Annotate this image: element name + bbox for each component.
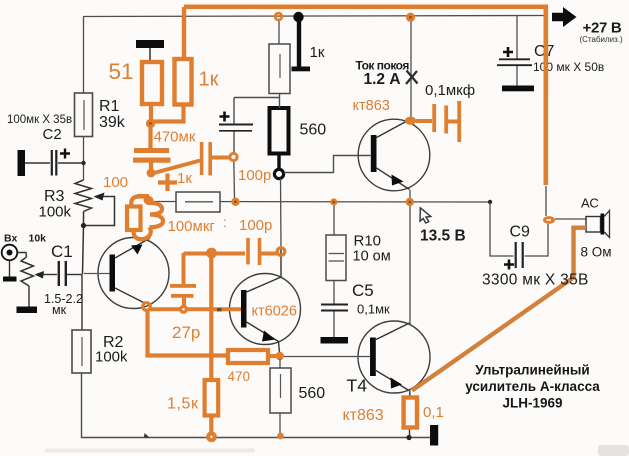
capacitor C1: [59, 261, 66, 286]
node rail black dot: [293, 12, 303, 22]
wire Q4 emitter to R01: [409, 391, 411, 398]
value 13.5 V: [420, 228, 466, 245]
svg-text:100: 100: [103, 174, 128, 191]
wire 1k5 branch vertical: [209, 253, 213, 380]
node speaker ellipse: [543, 216, 555, 224]
resistor 0.1 orange: [404, 398, 417, 428]
value 8 Om: [581, 245, 612, 260]
wire thick black to ground: [297, 20, 301, 67]
capacitor 27p: [170, 253, 196, 307]
capacitor 100p first: [200, 142, 230, 176]
svg-text:кт6026: кт6026: [252, 304, 297, 320]
wire top rail black: [83, 16, 544, 17]
wire Q3 emitter down: [409, 190, 411, 199]
label +27 V: [583, 20, 622, 37]
speaker AC: [586, 211, 610, 238]
svg-text:1к: 1к: [177, 170, 192, 187]
label 10k: [29, 233, 47, 245]
svg-text:0,1мк: 0,1мк: [357, 302, 390, 317]
title line 3: [502, 396, 562, 411]
label R2: [103, 334, 124, 351]
cursor arrow 13.5V: [420, 208, 431, 223]
svg-text:C1: C1: [51, 242, 73, 261]
svg-text:JLH-1969: JLH-1969: [502, 396, 562, 411]
value 470 orange: [228, 369, 251, 384]
resistor 560 lower gray: [270, 359, 291, 433]
value 100k R3: [39, 204, 72, 221]
value 100p orange lower: [239, 217, 272, 234]
resistor R2: [72, 330, 91, 373]
svg-text:39k: 39k: [99, 114, 126, 131]
arrow +27V: [552, 7, 577, 27]
wire connector ground: [9, 261, 11, 278]
transistor Q3 circle: [358, 119, 430, 191]
wire 560 node to Q3 base: [284, 156, 371, 173]
orange top rail wire: [184, 7, 546, 185]
svg-text:1к: 1к: [199, 69, 219, 91]
svg-text:8 Ом: 8 Ом: [581, 245, 612, 260]
svg-text:мк: мк: [52, 303, 67, 317]
svg-text:1к: 1к: [310, 44, 325, 61]
svg-text:51: 51: [109, 59, 134, 84]
node 560 bottom ring: [274, 169, 283, 178]
wire pot ground: [28, 286, 30, 307]
ground bar 1k: [292, 67, 311, 72]
wire wiper to C1: [42, 274, 57, 276]
wire output diagonal orange: [412, 228, 586, 391]
terminal bar C2 left: [18, 150, 26, 176]
node 470 right dot: [276, 352, 284, 360]
wire 1k gray top lead: [278, 21, 280, 44]
wire 560 top lead: [234, 94, 280, 125]
wire 470uF top lead: [148, 126, 152, 148]
value 51 orange: [109, 59, 134, 84]
svg-text:(Стабилиз.): (Стабилиз.): [580, 35, 624, 44]
value 0.1mkf black: [425, 82, 475, 99]
wiper arrow R3: [86, 193, 115, 226]
svg-text:470: 470: [228, 369, 251, 384]
svg-text:10 ом: 10 ом: [353, 249, 391, 265]
plus mark orange: [158, 174, 177, 192]
node R3 bottom: [81, 223, 86, 228]
svg-text:C5: C5: [352, 281, 374, 300]
wire R01 bottom lead: [409, 428, 411, 438]
junction tick bottom rail: [144, 433, 150, 438]
svg-text:100р: 100р: [239, 217, 272, 234]
node Q3 collector ellipse: [405, 117, 416, 125]
svg-text:C9: C9: [510, 224, 531, 241]
transistor Q2 collector: [247, 247, 282, 293]
wire 560 node down to Q2 collector ring: [280, 179, 283, 248]
wire connector to pot: [18, 253, 27, 258]
resistor 470 orange: [228, 350, 276, 363]
capacitor C5: [321, 305, 348, 311]
value 10 om: [353, 249, 391, 265]
label kt863 lower orange: [343, 407, 384, 424]
wire 1k top lead orange: [182, 7, 186, 59]
wire C2 right lead: [58, 162, 84, 164]
wire R10 to C5: [333, 281, 335, 304]
transistor Q1 collector: [115, 288, 146, 304]
wire 560 bottom lead thick: [277, 154, 280, 170]
colon separator: [223, 214, 227, 230]
value 1k orange top: [199, 69, 219, 91]
svg-text:0,1мкф: 0,1мкф: [425, 82, 475, 99]
capacitor 100p second: [246, 238, 277, 265]
value 27p orange: [172, 323, 200, 342]
wire Q4 collector up: [409, 202, 411, 324]
node rail ring 1k: [275, 13, 282, 20]
value 560 lower: [299, 385, 326, 402]
node ring cap junction: [230, 153, 237, 160]
transistor Q1 emitter: [115, 238, 150, 258]
label kt863 upper orange: [353, 98, 390, 114]
svg-text:R1: R1: [99, 98, 120, 115]
node output dot left: [330, 198, 337, 205]
X mark bias: [406, 71, 418, 85]
node 560 lower bottom dot: [277, 433, 284, 440]
wire R1 to R3: [83, 137, 85, 181]
label C5: [352, 281, 374, 300]
wire Q3 collector up: [410, 21, 412, 118]
svg-text:10k: 10k: [29, 233, 47, 245]
node inductor blob: [144, 196, 154, 205]
node C2-R1 junction: [81, 161, 85, 165]
transistor Q4 emitter: [376, 371, 409, 391]
ground bar top left: [136, 40, 164, 48]
capacitor C7: [497, 16, 534, 92]
svg-text:кт863: кт863: [353, 98, 390, 114]
wire feedback horizontal: [150, 307, 241, 311]
potentiometer 10k: [21, 257, 34, 286]
svg-text:R3: R3: [44, 188, 65, 205]
wire C9 branch: [490, 202, 514, 256]
node Q2 collector ring: [277, 248, 285, 256]
resistor 1k orange: [175, 59, 192, 105]
capacitor black mid (plus): [219, 112, 253, 154]
ground bar C5: [321, 337, 349, 344]
wire right rail lower: [545, 186, 547, 216]
label stabiliz: [580, 35, 624, 44]
node output C9 dot: [488, 200, 492, 204]
value 3300mk X 35V: [482, 272, 589, 289]
ground bar pot: [17, 307, 38, 314]
svg-text:кт863: кт863: [343, 407, 384, 424]
value 0.1mk: [357, 302, 390, 317]
smudge bottom streak: [45, 449, 255, 453]
capacitor C2: [52, 149, 70, 176]
node rail dot Q3: [406, 13, 415, 22]
label R10: [354, 233, 382, 250]
svg-text:470мк: 470мк: [154, 129, 196, 146]
svg-text:100k: 100k: [95, 349, 128, 366]
resistor 560 upper black: [270, 108, 289, 154]
tick dark on feedback wire: [217, 308, 222, 311]
resistor R10: [326, 235, 346, 281]
svg-text:27р: 27р: [172, 323, 200, 342]
node 470uF bottom dot: [147, 169, 156, 178]
svg-text:+27 В: +27 В: [583, 20, 622, 37]
value 100k R2: [95, 349, 128, 366]
svg-text:1,5к: 1,5к: [167, 396, 199, 413]
svg-text:100мк X 35в: 100мк X 35в: [7, 114, 72, 126]
node 470uF top dot: [146, 119, 155, 128]
value 100 orange: [103, 174, 128, 191]
label R1: [99, 98, 120, 115]
svg-text:АС: АС: [581, 196, 599, 211]
svg-text:1.2 А: 1.2 А: [364, 71, 401, 88]
svg-text:100р: 100р: [238, 167, 271, 184]
svg-text:0,1: 0,1: [423, 404, 444, 421]
capacitor C9: [504, 242, 523, 270]
wire ground to 51 resistor: [149, 48, 151, 62]
value 470mk orange: [154, 129, 196, 146]
svg-text:13.5 В: 13.5 В: [420, 228, 466, 245]
value 100mkg orange: [168, 218, 216, 235]
node 27p junction dot: [206, 248, 217, 259]
transistor Q2 emitter: [247, 322, 280, 353]
svg-text:560: 560: [299, 385, 326, 402]
resistor 1k gray top: [269, 44, 290, 94]
wire 1k bottom bend: [153, 105, 184, 122]
wire C1 to base node: [67, 274, 83, 276]
node output dot right: [406, 198, 414, 206]
label R3: [44, 188, 65, 205]
label Tok pokoya: [356, 59, 410, 73]
svg-text:Вх: Вх: [4, 233, 17, 245]
node R01 bottom: [406, 435, 411, 440]
resistor R1: [75, 93, 93, 137]
value 100mk X 50v: [533, 60, 604, 74]
svg-text:100k: 100k: [39, 204, 72, 221]
transistor Q1 circle: [98, 238, 169, 309]
value 100p orange upper: [238, 167, 271, 184]
smudge bottom right: [598, 445, 629, 456]
ground bar connector: [3, 277, 17, 282]
value 1.5-2.2 mk: [44, 292, 83, 317]
value 560 upper: [300, 122, 327, 139]
wire C2 left lead: [25, 162, 50, 164]
wire diagonal to 100p cap: [152, 161, 200, 174]
wire R10 top lead: [333, 202, 335, 235]
title line 1: [475, 363, 589, 378]
value 39k: [99, 114, 126, 131]
label C7: [534, 43, 555, 60]
terminal bar bottom right: [430, 425, 438, 446]
label 1k black: [310, 44, 325, 61]
transistor Q4 base bar: [370, 338, 376, 377]
label T4: [347, 376, 368, 396]
label kt6026 orange: [252, 304, 297, 320]
capacitor 0.1uF orange: [416, 101, 461, 142]
label C1: [51, 242, 73, 261]
wire R3 bottom: [83, 212, 84, 275]
wire C5 to ground: [333, 312, 335, 338]
potentiometer R3: [75, 180, 92, 212]
label C2: [43, 126, 62, 143]
label C9: [510, 224, 531, 241]
label AC: [581, 196, 599, 211]
label 100mk X 35v: [7, 114, 72, 126]
wire 51 bottom lead: [149, 104, 153, 121]
svg-text:3300 мк X 35В: 3300 мк X 35В: [482, 272, 589, 289]
value 1.5k orange: [167, 396, 199, 413]
wire Q1 collector branch down: [148, 311, 229, 356]
wire Q4 base lead: [284, 356, 370, 358]
wire rail overlay segment: [543, 40, 548, 95]
svg-text:Т4: Т4: [347, 376, 368, 396]
wire left rail upper: [83, 17, 85, 94]
wire R2 to bottom rail: [82, 373, 431, 438]
wire speaker lead: [555, 218, 586, 220]
svg-text:C2: C2: [43, 126, 62, 143]
inductor 100uH doodle: [127, 196, 163, 239]
transistor Q3 base bar: [371, 135, 377, 172]
svg-text:100мкг: 100мкг: [168, 218, 216, 235]
value 1.2 A: [364, 71, 401, 88]
transistor Q2 circle: [230, 274, 301, 345]
svg-text:560: 560: [300, 122, 327, 139]
transistor Q3 emitter: [377, 168, 410, 190]
input connector Vx: [2, 245, 18, 261]
svg-text:усилитель А-класса: усилитель А-класса: [465, 379, 600, 394]
node Q1 collector ring: [143, 303, 151, 311]
wire Q1 base lead: [84, 273, 110, 275]
label Vx: [4, 233, 17, 245]
transistor Q4 collector: [376, 323, 410, 340]
title line 2: [465, 379, 600, 394]
wire base node to R2: [81, 275, 83, 331]
transistor Q4 circle: [358, 321, 430, 393]
resistor 51 orange: [142, 62, 162, 104]
resistor 1k horizontal gray: [176, 192, 220, 212]
transistor Q1 base bar: [110, 255, 116, 292]
capacitor 470uF: [133, 148, 171, 170]
value 0.1 orange: [423, 404, 444, 421]
transistor Q2 base bar: [241, 290, 247, 328]
wire 27p node horizontal: [184, 252, 246, 256]
transistor Q3 collector: [377, 122, 407, 138]
node feedback dot: [179, 305, 188, 314]
svg-text:R10: R10: [354, 233, 382, 250]
wiper arrow 10k: [35, 271, 45, 279]
wire cap ring to hresistor node: [233, 161, 236, 199]
svg-text::: :: [223, 214, 227, 230]
wire C9 right to speaker node: [525, 224, 549, 256]
node hresistor ring dot: [231, 198, 239, 206]
wire main mid horizontal: [152, 201, 490, 204]
resistor 1k5 orange: [205, 380, 219, 433]
value 1k orange small: [177, 170, 192, 187]
svg-text:Ультралинейный: Ультралинейный: [475, 363, 589, 378]
node 1k5 bottom dot: [206, 431, 217, 442]
